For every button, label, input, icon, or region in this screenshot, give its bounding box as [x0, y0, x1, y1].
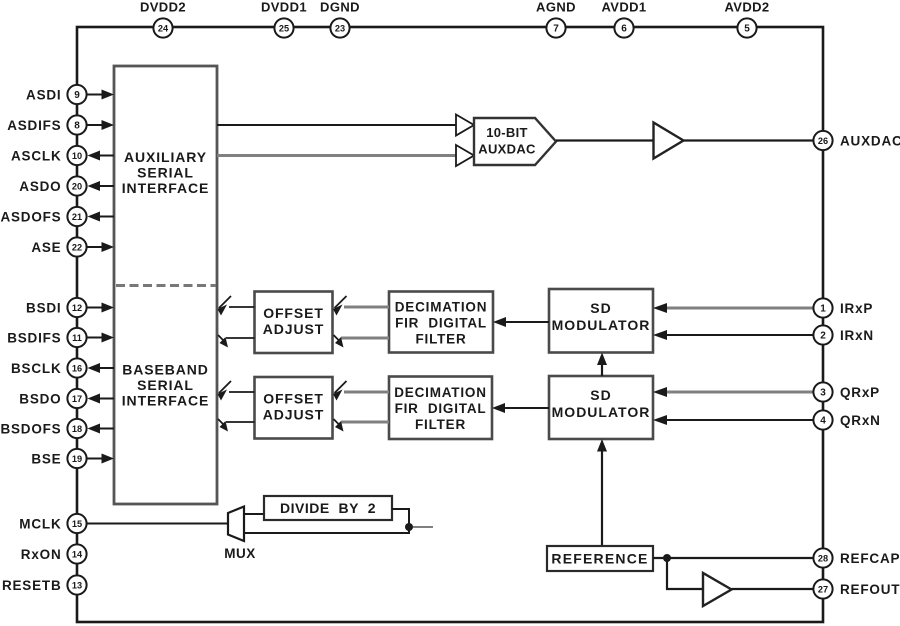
pin 23 DGND [330, 18, 349, 37]
buffer amp triangle (auxdac output) [654, 123, 684, 159]
svg-text:ASDI: ASDI [26, 87, 61, 102]
wire serial to offset1 (row1 bottom) [226, 337, 255, 339]
wire offset1 to serial (row1 top) [229, 306, 255, 308]
svg-text:5: 5 [744, 24, 750, 35]
svg-text:24: 24 [158, 24, 169, 34]
svg-text:21: 21 [72, 212, 82, 222]
offset adjust block 2 [255, 377, 333, 439]
pin 21 ASDOFS [67, 207, 86, 226]
pin 14 RxON [67, 544, 86, 563]
arrow from offset1 row1b [334, 335, 344, 348]
svg-text:ASDO: ASDO [19, 179, 61, 194]
svg-text:FILTER: FILTER [415, 332, 466, 347]
pin 10 ASCLK [67, 146, 86, 165]
sd modulator block 2 [549, 376, 653, 439]
wire mux to divide by 2 [244, 513, 264, 515]
pin 18 BSDOFS [67, 419, 86, 438]
svg-text:QRxP: QRxP [840, 385, 880, 400]
svg-text:6: 6 [621, 24, 627, 35]
wire pin 10 ASCLK [88, 151, 115, 161]
arrow from offset2 row2b [334, 419, 344, 432]
pin 28 REFCAP [813, 548, 832, 567]
pin 13 RESETB [67, 575, 86, 594]
dashed divider between interfaces [116, 284, 216, 287]
pin 3 QRxP [813, 382, 832, 401]
decimation fir digital filter block 2 [389, 377, 492, 440]
svg-text:27: 27 [818, 585, 828, 595]
svg-text:10: 10 [72, 151, 82, 161]
svg-text:SERIAL: SERIAL [137, 165, 194, 181]
wire decim1 to offset1 (row1 top) [344, 306, 389, 309]
arrow into serial block row2 [218, 381, 232, 401]
mux trapezoid [228, 507, 244, 542]
pin 1 IRxP [813, 298, 832, 317]
svg-text:DECIMATION: DECIMATION [394, 385, 487, 400]
svg-text:SD: SD [590, 387, 611, 403]
svg-text:OFFSET: OFFSET [263, 391, 324, 407]
divide by 2 block [264, 496, 392, 520]
pin 22 ASE [67, 237, 86, 256]
svg-text:REFCAP: REFCAP [840, 551, 900, 566]
sd modulator block 1 [549, 289, 653, 353]
wire pin 8 ASDIFS [87, 120, 114, 130]
wire buffer to pin 27 refout [732, 588, 816, 590]
svg-text:AUXILIARY: AUXILIARY [124, 149, 207, 165]
wire pin 11 BSDIFS [87, 333, 114, 343]
pin 7 AGND [546, 18, 565, 37]
pin 6 AVDD1 [614, 18, 633, 37]
svg-text:REFOUT: REFOUT [840, 582, 900, 597]
svg-text:AUXDAC: AUXDAC [478, 142, 536, 157]
wire pin 3 QRxP to sd modulator 2 [653, 387, 813, 397]
svg-text:BASEBAND: BASEBAND [122, 362, 209, 378]
pin 15 MCLK [67, 514, 86, 533]
svg-text:INTERFACE: INTERFACE [122, 180, 209, 196]
pin 5 AVDD2 [737, 18, 756, 37]
wire sd2 to sd1 vertical arrow [597, 353, 607, 377]
wire pin 16 BSCLK [88, 363, 115, 373]
auxiliary/baseband serial interface block U1 [114, 66, 217, 504]
svg-text:AGND: AGND [536, 0, 576, 15]
wire pin 18 BSDOFS [88, 424, 115, 434]
svg-text:7: 7 [553, 24, 559, 35]
junction dot clock node [405, 523, 413, 531]
wire decim2 to offset2 (row2 top) [344, 391, 389, 394]
wire pin 2 IRxN to sd modulator 1 [653, 330, 813, 340]
reference block [547, 546, 653, 571]
pin 24 DVDD2 [153, 18, 172, 37]
svg-text:BSDI: BSDI [26, 300, 61, 315]
svg-text:SERIAL: SERIAL [137, 377, 194, 393]
svg-text:9: 9 [74, 90, 80, 101]
pin 26 AUXDAC [813, 131, 832, 150]
wire pin 12 BSDI [87, 303, 114, 313]
svg-text:ADJUST: ADJUST [263, 407, 324, 423]
pin 20 ASDO [67, 176, 86, 195]
wire pin 1 IRxP to sd modulator 1 [653, 303, 813, 313]
pin 27 REFOUT [813, 579, 832, 598]
wire pin 20 ASDO [88, 181, 115, 191]
pin 8 ASDIFS [67, 115, 86, 134]
svg-text:10-BIT: 10-BIT [486, 125, 528, 140]
svg-text:DVDD1: DVDD1 [261, 0, 307, 15]
svg-text:BSCLK: BSCLK [11, 361, 62, 376]
buffer amp triangle (refout) [703, 573, 732, 606]
svg-text:IRxP: IRxP [840, 301, 873, 316]
junction dot refcap node [663, 554, 671, 562]
wire serial to auxdac bus B [217, 154, 457, 157]
chevron arrow into auxdac A [456, 115, 474, 136]
svg-text:11: 11 [72, 333, 82, 343]
svg-text:INTERFACE: INTERFACE [122, 393, 209, 409]
svg-text:18: 18 [72, 424, 82, 434]
wire offset2 to serial (row2 top) [229, 391, 255, 393]
svg-text:MCLK: MCLK [19, 516, 61, 531]
wire mclk pin to mux [87, 523, 228, 525]
svg-text:IRxN: IRxN [840, 328, 874, 343]
offset adjust block 1 [255, 292, 333, 354]
svg-text:BSDOFS: BSDOFS [0, 421, 61, 436]
svg-text:QRxN: QRxN [840, 413, 881, 428]
svg-text:FIR DIGITAL: FIR DIGITAL [395, 401, 487, 416]
pin 16 BSCLK [67, 358, 86, 377]
svg-text:DGND: DGND [320, 0, 360, 15]
wire serial to offset2 (row2 bottom) [226, 421, 255, 423]
svg-text:BSDO: BSDO [19, 391, 61, 406]
arrow into offset2 right edge [333, 381, 347, 401]
svg-text:16: 16 [72, 364, 82, 374]
pin 11 BSDIFS [67, 328, 86, 347]
svg-text:MUX: MUX [224, 546, 256, 561]
wire divide by 2 output loop to mux [244, 509, 409, 533]
svg-text:12: 12 [72, 303, 82, 313]
svg-text:BSE: BSE [31, 451, 61, 466]
svg-text:AVDD1: AVDD1 [601, 0, 646, 15]
10-bit auxdac pentagon [474, 118, 556, 165]
arrow from serial block row1b [218, 335, 228, 348]
svg-text:4: 4 [820, 416, 826, 427]
wire reference to pin 28 refcap [653, 557, 815, 559]
arrow from serial block row2b [218, 419, 228, 432]
wire sd1 to decim1 [493, 317, 549, 327]
wire clock stub [413, 526, 433, 528]
pin 2 IRxN [813, 325, 832, 344]
wire pin 22 ASE [87, 242, 114, 252]
svg-text:23: 23 [335, 24, 345, 34]
svg-text:RxON: RxON [21, 547, 62, 562]
svg-text:1: 1 [820, 304, 826, 315]
wire refcap node down to refout buffer [667, 558, 702, 589]
svg-text:ASDOFS: ASDOFS [0, 209, 61, 224]
pin 12 BSDI [67, 298, 86, 317]
svg-text:RESETB: RESETB [2, 578, 62, 593]
svg-text:17: 17 [72, 394, 82, 404]
svg-text:26: 26 [818, 136, 828, 146]
svg-text:ASDIFS: ASDIFS [7, 118, 61, 133]
chevron arrow into auxdac B [456, 145, 474, 166]
pin 17 BSDO [67, 389, 86, 408]
pin 9 ASDI [67, 85, 86, 104]
svg-text:ASCLK: ASCLK [11, 148, 62, 163]
arrow into offset1 right edge [333, 296, 347, 316]
svg-text:ASE: ASE [31, 240, 61, 255]
wire reference to sd2 vertical arrow [597, 439, 607, 546]
wire pin 21 ASDOFS [88, 212, 115, 222]
svg-text:20: 20 [72, 182, 82, 192]
svg-text:MODULATOR: MODULATOR [552, 404, 651, 420]
decimation fir digital filter block 1 [389, 292, 493, 353]
wire offset2 to decim2 (row2 bottom) [341, 421, 389, 424]
wire pin 4 QRxN to sd modulator 2 [653, 415, 813, 425]
arrow into serial block row1 [218, 296, 232, 316]
svg-text:OFFSET: OFFSET [263, 305, 324, 321]
pin 25 DVDD1 [274, 18, 293, 37]
svg-text:25: 25 [279, 24, 289, 34]
wire pin 9 ASDI [87, 90, 114, 100]
svg-text:MODULATOR: MODULATOR [552, 317, 651, 333]
svg-text:AUXDAC: AUXDAC [840, 133, 900, 148]
svg-text:REFERENCE: REFERENCE [551, 551, 648, 567]
svg-text:13: 13 [72, 581, 82, 591]
svg-text:FILTER: FILTER [415, 417, 466, 432]
pin 19 BSE [67, 449, 86, 468]
svg-text:DECIMATION: DECIMATION [395, 300, 488, 315]
pin 4 QRxN [813, 410, 832, 429]
svg-text:15: 15 [72, 519, 82, 529]
outer border frame [77, 27, 823, 622]
svg-text:AVDD2: AVDD2 [724, 0, 769, 15]
svg-text:19: 19 [72, 454, 82, 464]
svg-text:DVDD2: DVDD2 [140, 0, 186, 15]
svg-text:14: 14 [72, 550, 83, 560]
svg-text:28: 28 [818, 554, 828, 564]
svg-text:3: 3 [820, 388, 826, 399]
wire offset1 to decim1 (row1 bottom) [341, 337, 389, 340]
svg-text:2: 2 [820, 331, 826, 342]
svg-text:8: 8 [74, 121, 80, 132]
svg-text:FIR DIGITAL: FIR DIGITAL [395, 316, 487, 331]
wire pin 19 BSE [87, 454, 114, 464]
svg-text:ADJUST: ADJUST [263, 321, 324, 337]
wire pin 17 BSDO [88, 394, 115, 404]
svg-text:SD: SD [590, 300, 611, 316]
svg-text:22: 22 [72, 243, 82, 253]
wire buffer to pin 26 [684, 139, 816, 141]
wire auxdac to buffer [556, 139, 653, 141]
wire sd2 to decim2 [492, 403, 549, 413]
svg-text:DIVIDE BY 2: DIVIDE BY 2 [280, 500, 376, 516]
svg-text:BSDIFS: BSDIFS [7, 330, 61, 345]
wire serial to auxdac bus A [217, 124, 457, 126]
